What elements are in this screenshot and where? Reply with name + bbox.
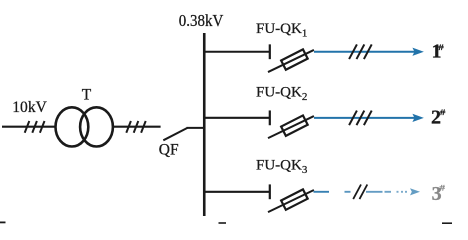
busbar 0.38kV [203, 33, 206, 216]
svg-text:#: # [440, 183, 446, 193]
fuse-switch FU-QK1 blade [268, 50, 314, 72]
wire branch 1 from busbar [204, 51, 269, 53]
contact tick branch 1 [269, 44, 271, 59]
crop mark bottom left [0, 222, 6, 224]
svg-text:FU-QK3: FU-QK3 [256, 158, 308, 176]
breaker QF blade [163, 128, 187, 140]
contact tick branch 2 [269, 110, 271, 125]
transformer T winding 2 [80, 107, 113, 146]
slash marks feeder 2 [349, 111, 372, 126]
transformer T winding 1 [56, 107, 89, 146]
slash marks feeder 1 [349, 44, 372, 59]
arrowhead feeder 3 [410, 188, 420, 195]
contact tick branch 3 [269, 184, 271, 199]
svg-text:0.38kV: 0.38kV [179, 11, 224, 30]
wire feeder 3 blue dashed (faded) [314, 191, 408, 193]
fuse body FU-QK3 [281, 189, 308, 209]
wire branch 2 from busbar [204, 117, 269, 119]
wire QF to busbar [187, 127, 206, 129]
arrowhead feeder 2 [413, 114, 423, 121]
crop mark bottom middle [219, 222, 227, 224]
fuse body FU-QK2 [281, 115, 308, 135]
slash marks feeder 3 [353, 185, 367, 200]
svg-text:#: # [440, 108, 446, 118]
svg-text:FU-QK2: FU-QK2 [256, 85, 307, 103]
svg-text:T: T [82, 87, 92, 104]
wire transformer to QF [113, 126, 161, 128]
fuse-switch FU-QK3 blade [268, 190, 314, 212]
slash marks on transformer secondary [126, 121, 145, 133]
svg-text:#: # [438, 43, 444, 53]
wire branch 3 from busbar [204, 191, 269, 193]
wire feeder 1 blue [314, 51, 415, 53]
label 3# [432, 183, 445, 205]
slash marks on 10kV line [25, 121, 45, 133]
svg-text:10kV: 10kV [12, 99, 47, 116]
wire feeder 2 blue [314, 117, 415, 119]
fuse-switch FU-QK2 blade [268, 116, 314, 138]
svg-text:FU-QK1: FU-QK1 [256, 21, 307, 39]
fuse body FU-QK1 [281, 49, 308, 69]
svg-text:QF: QF [159, 142, 179, 159]
crop mark bottom right [442, 222, 452, 224]
arrowhead feeder 1 [413, 48, 423, 55]
wire 10kV incoming line [2, 126, 56, 128]
